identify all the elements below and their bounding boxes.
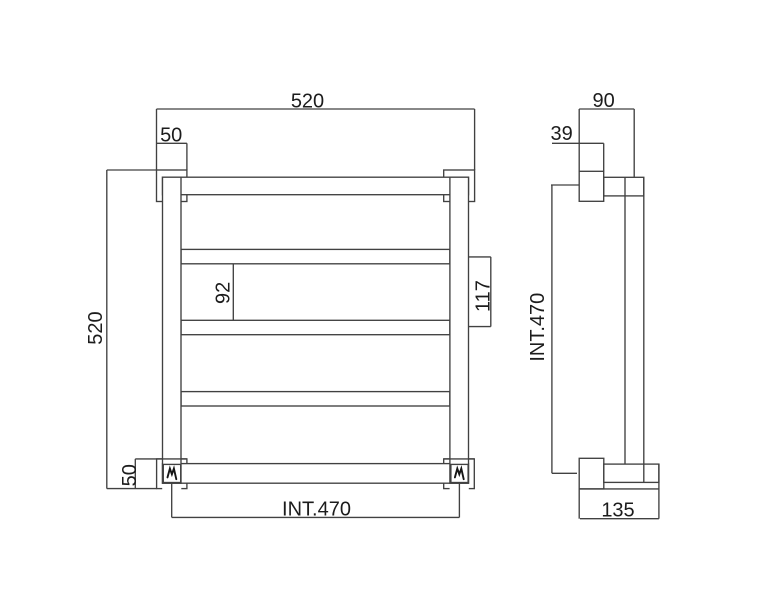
label 117 (rotated): [472, 280, 494, 312]
dimension 520 top: dim line: [157, 108, 475, 110]
label INT.470 front: [282, 498, 351, 520]
dimension 50 top: dim line: [157, 142, 187, 144]
front view: right post: [450, 177, 469, 483]
dimension 90: dim line: [579, 108, 634, 110]
dimension 117 box: [469, 257, 491, 327]
dimension 39: right extension: [603, 143, 605, 171]
svg-text:92: 92: [213, 282, 235, 304]
dimension 39: dim line: [552, 142, 604, 144]
dimension 92 box line: [232, 264, 234, 321]
dimension INT.470 side: bottom leader: [552, 472, 577, 474]
label INT.470 side (rotated): [527, 293, 549, 362]
front view: rung 3: [181, 392, 450, 406]
front view: right M logo: [455, 469, 464, 480]
dimension 520 left: dim line: [106, 170, 108, 489]
side view: vertical bar left edge: [624, 177, 626, 464]
label 39: [550, 123, 572, 145]
svg-text:INT.470: INT.470: [282, 498, 351, 520]
label 520 left (rotated): [85, 311, 107, 344]
front view: bottom-left wall bracket: [157, 459, 187, 489]
front view: bottom horizontal bar: [163, 464, 469, 484]
front view: top horizontal bar: [163, 177, 469, 195]
svg-text:39: 39: [550, 123, 572, 145]
leader to left 520 dim, bottom: [107, 488, 157, 490]
dimension INT.470 front: left extension: [171, 483, 173, 518]
svg-text:117: 117: [472, 280, 494, 312]
label 50 top: [160, 125, 182, 147]
front view: top-right wall bracket: [444, 170, 475, 202]
front view: right M box: [451, 464, 468, 482]
front view: top-left wall bracket: [157, 170, 187, 202]
label 90: [592, 90, 614, 112]
side view: bottom arm: [604, 464, 659, 482]
svg-text:50: 50: [160, 125, 182, 147]
label 50 bottom (rotated): [119, 464, 141, 486]
svg-text:135: 135: [601, 499, 634, 521]
front view: bottom-right wall bracket: [444, 459, 475, 489]
label 520 top: [291, 91, 324, 113]
label 92 (rotated): [213, 282, 235, 304]
front view: bottom bracket top edges across posts: [157, 458, 475, 460]
dimension 135: box: [579, 464, 659, 519]
side view: bottom wall plate: [579, 458, 604, 489]
svg-text:INT.470: INT.470: [527, 293, 549, 362]
erase bracket bottoms behind posts: [162, 484, 469, 490]
dimension 90: right extension: [633, 109, 635, 177]
side view: top wall plate: [579, 171, 604, 201]
dimension 520 top: right extension: [474, 109, 476, 170]
dimension INT.470 side: top leader: [551, 184, 579, 186]
dimension INT.470 side: dim line: [551, 185, 553, 473]
dimension 50 bottom: top leader: [135, 458, 156, 460]
side view: top arm: [604, 177, 644, 196]
label 135: [601, 499, 634, 521]
svg-text:90: 90: [592, 90, 614, 112]
dimension 520 top: left extension: [156, 109, 158, 170]
front view: rung 2: [181, 320, 450, 334]
dimension INT.470 front: right extension: [458, 483, 460, 518]
front view: rung 1: [181, 249, 450, 263]
svg-text:50: 50: [119, 464, 141, 486]
dimension 50 top: right extension: [186, 143, 188, 170]
dimension 90: left extension: [578, 109, 580, 171]
leader to left 520 dim, top: [107, 169, 157, 171]
dimension 50 bottom: dim line: [134, 459, 136, 489]
front view: left post: [163, 177, 182, 483]
front view: left M box: [163, 464, 180, 482]
front view: left M logo: [168, 469, 177, 480]
svg-text:520: 520: [291, 91, 324, 113]
dimension INT.470 front: dim line: [172, 516, 460, 518]
side view: vertical bar right edge: [643, 177, 645, 482]
svg-text:520: 520: [85, 311, 107, 344]
